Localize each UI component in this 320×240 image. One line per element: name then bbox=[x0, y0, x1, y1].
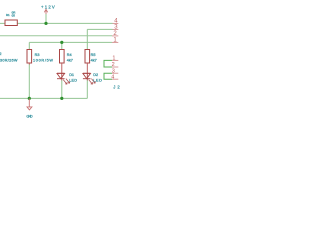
LED D1 arrows bbox=[63, 79, 70, 85]
svg-text:30R/26W: 30R/26W bbox=[0, 59, 18, 63]
lead R3 bottom bbox=[28, 63, 30, 65]
svg-text:05: 05 bbox=[12, 13, 16, 17]
wire net C bbox=[0, 35, 112, 37]
wire +12V stem bbox=[45, 14, 47, 23]
wire net B (pin3 to R5) bbox=[87, 29, 112, 49]
svg-text:LED: LED bbox=[69, 78, 77, 82]
junction dot net D / R4 bbox=[60, 41, 63, 44]
svg-text:R5: R5 bbox=[91, 53, 96, 57]
svg-text:GND: GND bbox=[26, 115, 32, 119]
junction dot GND bus / D1 bbox=[60, 97, 63, 100]
jumper J2 box B bbox=[104, 73, 112, 79]
LED D2 bbox=[83, 73, 91, 80]
svg-text:R2: R2 bbox=[0, 52, 1, 56]
jumper pin stubs bbox=[112, 60, 118, 79]
resistor R3 body bbox=[27, 50, 32, 64]
svg-text:2: 2 bbox=[112, 62, 115, 68]
svg-text:R4: R4 bbox=[67, 53, 72, 57]
resistor R5 body bbox=[85, 50, 90, 64]
svg-text:4k7: 4k7 bbox=[91, 59, 97, 63]
svg-text:4: 4 bbox=[111, 74, 114, 80]
svg-text:4k7: 4k7 bbox=[67, 59, 73, 63]
svg-text:R1: R1 bbox=[6, 13, 10, 17]
wire net D (pin1 to R3/R4) bbox=[29, 42, 112, 49]
svg-text:D1: D1 bbox=[69, 73, 74, 77]
svg-text:1: 1 bbox=[112, 56, 115, 62]
wire net A (+12V rail) bbox=[0, 22, 113, 24]
svg-text:D2: D2 bbox=[93, 73, 98, 77]
jumper J2 box A bbox=[104, 60, 112, 67]
LED D2 arrows bbox=[89, 79, 96, 85]
resistor R1 bbox=[5, 20, 17, 26]
junction dot GND bus / R3 bbox=[28, 97, 31, 100]
svg-text:LED: LED bbox=[93, 78, 102, 82]
lead R4 to D1 bbox=[61, 63, 63, 73]
lead R5 to D2 bbox=[86, 63, 88, 73]
svg-text:J2: J2 bbox=[113, 85, 120, 90]
resistor R4 body bbox=[60, 50, 65, 64]
svg-text:+12V: +12V bbox=[41, 5, 55, 10]
ground symbol bbox=[27, 98, 32, 110]
connector pin stubs (right edge) bbox=[112, 23, 118, 42]
junction dot at +12V / net A bbox=[44, 22, 47, 25]
svg-text:R3: R3 bbox=[35, 53, 40, 57]
LED D1 bbox=[57, 73, 65, 80]
svg-text:100R/5W: 100R/5W bbox=[33, 59, 53, 63]
wire GND bus bbox=[0, 64, 87, 98]
power symbol +12V arrow bbox=[44, 9, 47, 14]
